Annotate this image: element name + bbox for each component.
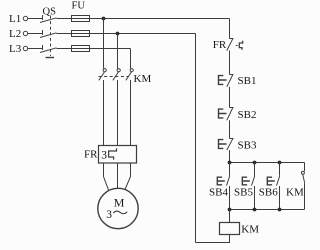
fuse FU pole 1: [72, 16, 90, 22]
pushbutton SB6 (NO start): [267, 163, 280, 210]
svg-text:SB3: SB3: [238, 140, 257, 152]
svg-text:KM: KM: [241, 224, 259, 236]
wire FR to motor pole3: [125, 163, 131, 190]
wire KM to FR pole1: [103, 80, 105, 146]
wire L1 to QS: [28, 18, 42, 20]
svg-text:SB6: SB6: [259, 187, 278, 199]
wire QS to FU row3: [57, 48, 131, 50]
junction dot L2/control: [116, 32, 120, 36]
contactor KM main contact pole2: [113, 69, 120, 81]
wire KM to FR pole3: [130, 80, 132, 146]
svg-text:KM: KM: [134, 73, 152, 85]
switch QS: [40, 7, 57, 58]
pushbutton SB1 (NC stop): [219, 75, 234, 87]
wire drop phase2 to KM: [117, 34, 119, 69]
wire top bus of parallel branches: [230, 162, 305, 164]
svg-text:SB1: SB1: [238, 75, 257, 87]
wire L2 to QS: [28, 33, 42, 35]
svg-text:SB2: SB2: [238, 109, 257, 121]
svg-text:L2: L2: [9, 28, 21, 40]
wire bus to coil: [229, 210, 231, 223]
node L3: [9, 43, 28, 55]
wire FR contact to SB1: [229, 51, 231, 75]
svg-text:FR: FR: [213, 39, 227, 51]
svg-text:L3: L3: [9, 43, 22, 55]
contactor KM main contact pole1: [99, 69, 106, 81]
wire KM to FR pole2: [117, 80, 119, 146]
fuse FU pole 2: [72, 31, 90, 37]
wire L3 to QS: [28, 48, 42, 50]
wire drop phase3 to KM: [130, 49, 132, 69]
wire SB3 to parallel bus: [229, 150, 231, 162]
contactor KM main contact pole3: [126, 69, 133, 81]
wire SB2 to SB3: [229, 120, 231, 138]
wire FR to motor pole2: [117, 163, 119, 188]
pushbutton SB5 (NO start): [242, 163, 255, 210]
svg-text:3: 3: [101, 149, 107, 161]
junction dot L1/control: [102, 17, 106, 21]
fuse FU pole 3: [72, 46, 90, 52]
wire control rail right (from L1): [229, 19, 231, 39]
pushbutton SB3 (NC stop): [219, 139, 234, 151]
svg-text:FU: FU: [72, 1, 86, 12]
svg-text:SB5: SB5: [234, 187, 253, 199]
wire SB1 to SB2: [229, 87, 231, 108]
junction dot bottombus/SB4: [228, 208, 232, 212]
wire drop phase1 to KM: [103, 19, 105, 69]
wire control rail left (to L2): [195, 34, 197, 243]
junction dot bus/SB6: [278, 161, 282, 165]
motor M: [98, 188, 138, 228]
svg-text:M: M: [114, 196, 125, 210]
node L2: [9, 28, 28, 40]
svg-text:KM: KM: [286, 187, 304, 199]
junction dot bottombus/SB6: [278, 208, 282, 212]
contactor coil KM: [220, 223, 240, 235]
contactor KM auxiliary contact (NO): [301, 163, 304, 210]
wire FR to motor pole1: [104, 163, 109, 191]
junction dot bottombus/SB5: [253, 208, 257, 212]
pushbutton SB4 (NO start): [217, 163, 230, 210]
thermal relay FR contact (NC): [227, 39, 243, 51]
wire QS to FU row1: [57, 18, 230, 20]
svg-text:QS: QS: [43, 7, 57, 18]
pushbutton SB2 (NC stop): [219, 108, 234, 121]
svg-text:FR: FR: [84, 149, 98, 161]
svg-text:L1: L1: [9, 13, 21, 25]
thermal relay FR heater box: [99, 146, 137, 164]
svg-text:3: 3: [106, 209, 112, 221]
junction dot bus/SB4: [228, 161, 232, 165]
svg-text:SB4: SB4: [209, 187, 228, 199]
junction dot bus/SB5: [253, 161, 257, 165]
KM linkage dashed: [99, 76, 130, 78]
node L1: [9, 13, 28, 25]
wire QS to FU row2: [57, 33, 196, 35]
wire bottom bus of parallel branches: [230, 209, 305, 211]
wire coil to left rail: [196, 235, 230, 243]
